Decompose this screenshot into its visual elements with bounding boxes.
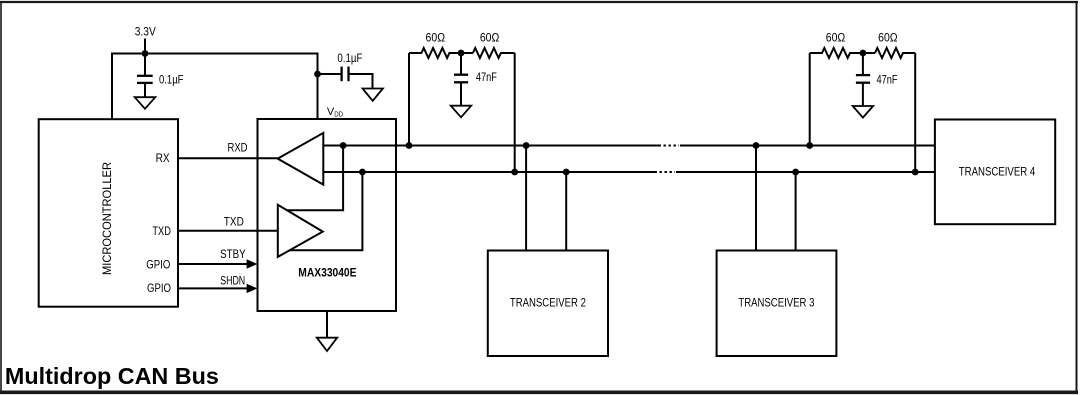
node: T3 CANH junction (753, 142, 760, 149)
capacitor C2 0.1uF (318, 67, 373, 89)
wire STBY with arrow (178, 263, 248, 265)
termination network 1: right vertical wire (514, 53, 516, 172)
svg-text:3.3V: 3.3V (135, 25, 156, 39)
node: VDD cap tap (314, 71, 321, 78)
svg-text:SHDN: SHDN (220, 274, 245, 288)
svg-text:47nF: 47nF (476, 70, 497, 84)
node: term2 CANH junction (806, 142, 813, 149)
transceiver 2 box (488, 251, 608, 357)
svg-text:0.1µF: 0.1µF (159, 72, 184, 86)
node: term1 CANL junction (511, 169, 518, 176)
transceiver 3 box (717, 251, 837, 357)
wire: transceiver3 CANH tap (755, 146, 757, 251)
wire: transceiver2 CANL tap (565, 172, 567, 251)
svg-text:Multidrop CAN Bus: Multidrop CAN Bus (5, 363, 219, 389)
node: term1 CANH junction (406, 142, 413, 149)
wire RXD (178, 157, 278, 159)
microcontroller U1 (39, 119, 178, 307)
node: driver/CANL junction (359, 169, 366, 176)
svg-text:60Ω: 60Ω (480, 31, 500, 45)
svg-text:MAX33040E: MAX33040E (298, 266, 356, 280)
resistor R2 60ohm (473, 48, 515, 58)
svg-text:RX: RX (156, 151, 170, 165)
node: T2 CANL junction (563, 169, 570, 176)
ground (C4) (853, 106, 873, 118)
ground (U2) (317, 338, 337, 351)
wire: CANH bus line (323, 145, 935, 147)
svg-text:RXD: RXD (228, 140, 248, 154)
svg-text:STBY: STBY (220, 247, 246, 261)
termination network 2: left vertical wire (809, 53, 811, 146)
svg-text:TXD: TXD (152, 224, 171, 238)
svg-text:MICROCONTROLLER: MICROCONTROLLER (100, 162, 114, 275)
svg-text:GPIO: GPIO (146, 258, 170, 272)
termination network 1: left vertical wire (408, 53, 410, 146)
wire: 3.3V lead (144, 39, 146, 54)
resistor R1 60ohm (409, 48, 473, 58)
transceiver 4 box (935, 120, 1055, 225)
termination network 2: right vertical wire (914, 53, 916, 172)
svg-text:60Ω: 60Ω (878, 31, 898, 45)
svg-text:TRANSCEIVER 4: TRANSCEIVER 4 (959, 165, 1036, 179)
wire: driver output to CANL (290, 172, 363, 250)
svg-text:GPIO: GPIO (147, 281, 171, 295)
ground (C3) (451, 106, 471, 118)
svg-text:0.1µF: 0.1µF (337, 51, 362, 65)
resistor R3 60ohm (810, 48, 875, 58)
ground (C2) (363, 89, 383, 101)
capacitor C1 0.1uF (137, 54, 153, 98)
wire: 3.3V supply rail (112, 54, 318, 120)
wire SHDN with arrow (178, 287, 248, 289)
wire: U2 ground lead (326, 311, 328, 338)
op-amp: driver buffer (278, 205, 323, 257)
svg-text:TXD: TXD (224, 214, 244, 228)
capacitor C3 47nF (454, 53, 468, 106)
wire: transceiver3 CANL tap (795, 172, 797, 251)
wire: transceiver2 CANH tap (525, 146, 527, 251)
transceiver U2 MAX33040E box (258, 119, 397, 311)
resistor R4 60ohm (875, 48, 915, 58)
capacitor C4 47nF (856, 53, 870, 106)
wire TXD (178, 230, 278, 232)
svg-text:TRANSCEIVER 2: TRANSCEIVER 2 (510, 295, 586, 309)
ground (C1) (135, 97, 156, 109)
node: T2 CANH junction (523, 142, 530, 149)
svg-text:47nF: 47nF (877, 72, 898, 86)
node: term2 center junction (860, 50, 867, 57)
node: term2 CANL junction (912, 169, 919, 176)
node: T3 CANL junction (792, 169, 799, 176)
op-amp: receiver buffer (278, 133, 324, 185)
svg-text:60Ω: 60Ω (826, 31, 846, 45)
node: driver/CANH junction (340, 142, 347, 149)
node: term1 center junction (458, 50, 465, 57)
node: 3.3V junction (142, 50, 149, 57)
svg-text:60Ω: 60Ω (426, 31, 446, 45)
wire: driver output to CANH (287, 146, 343, 211)
svg-text:TRANSCEIVER 3: TRANSCEIVER 3 (738, 295, 814, 309)
wire: CANL bus line (323, 171, 935, 173)
